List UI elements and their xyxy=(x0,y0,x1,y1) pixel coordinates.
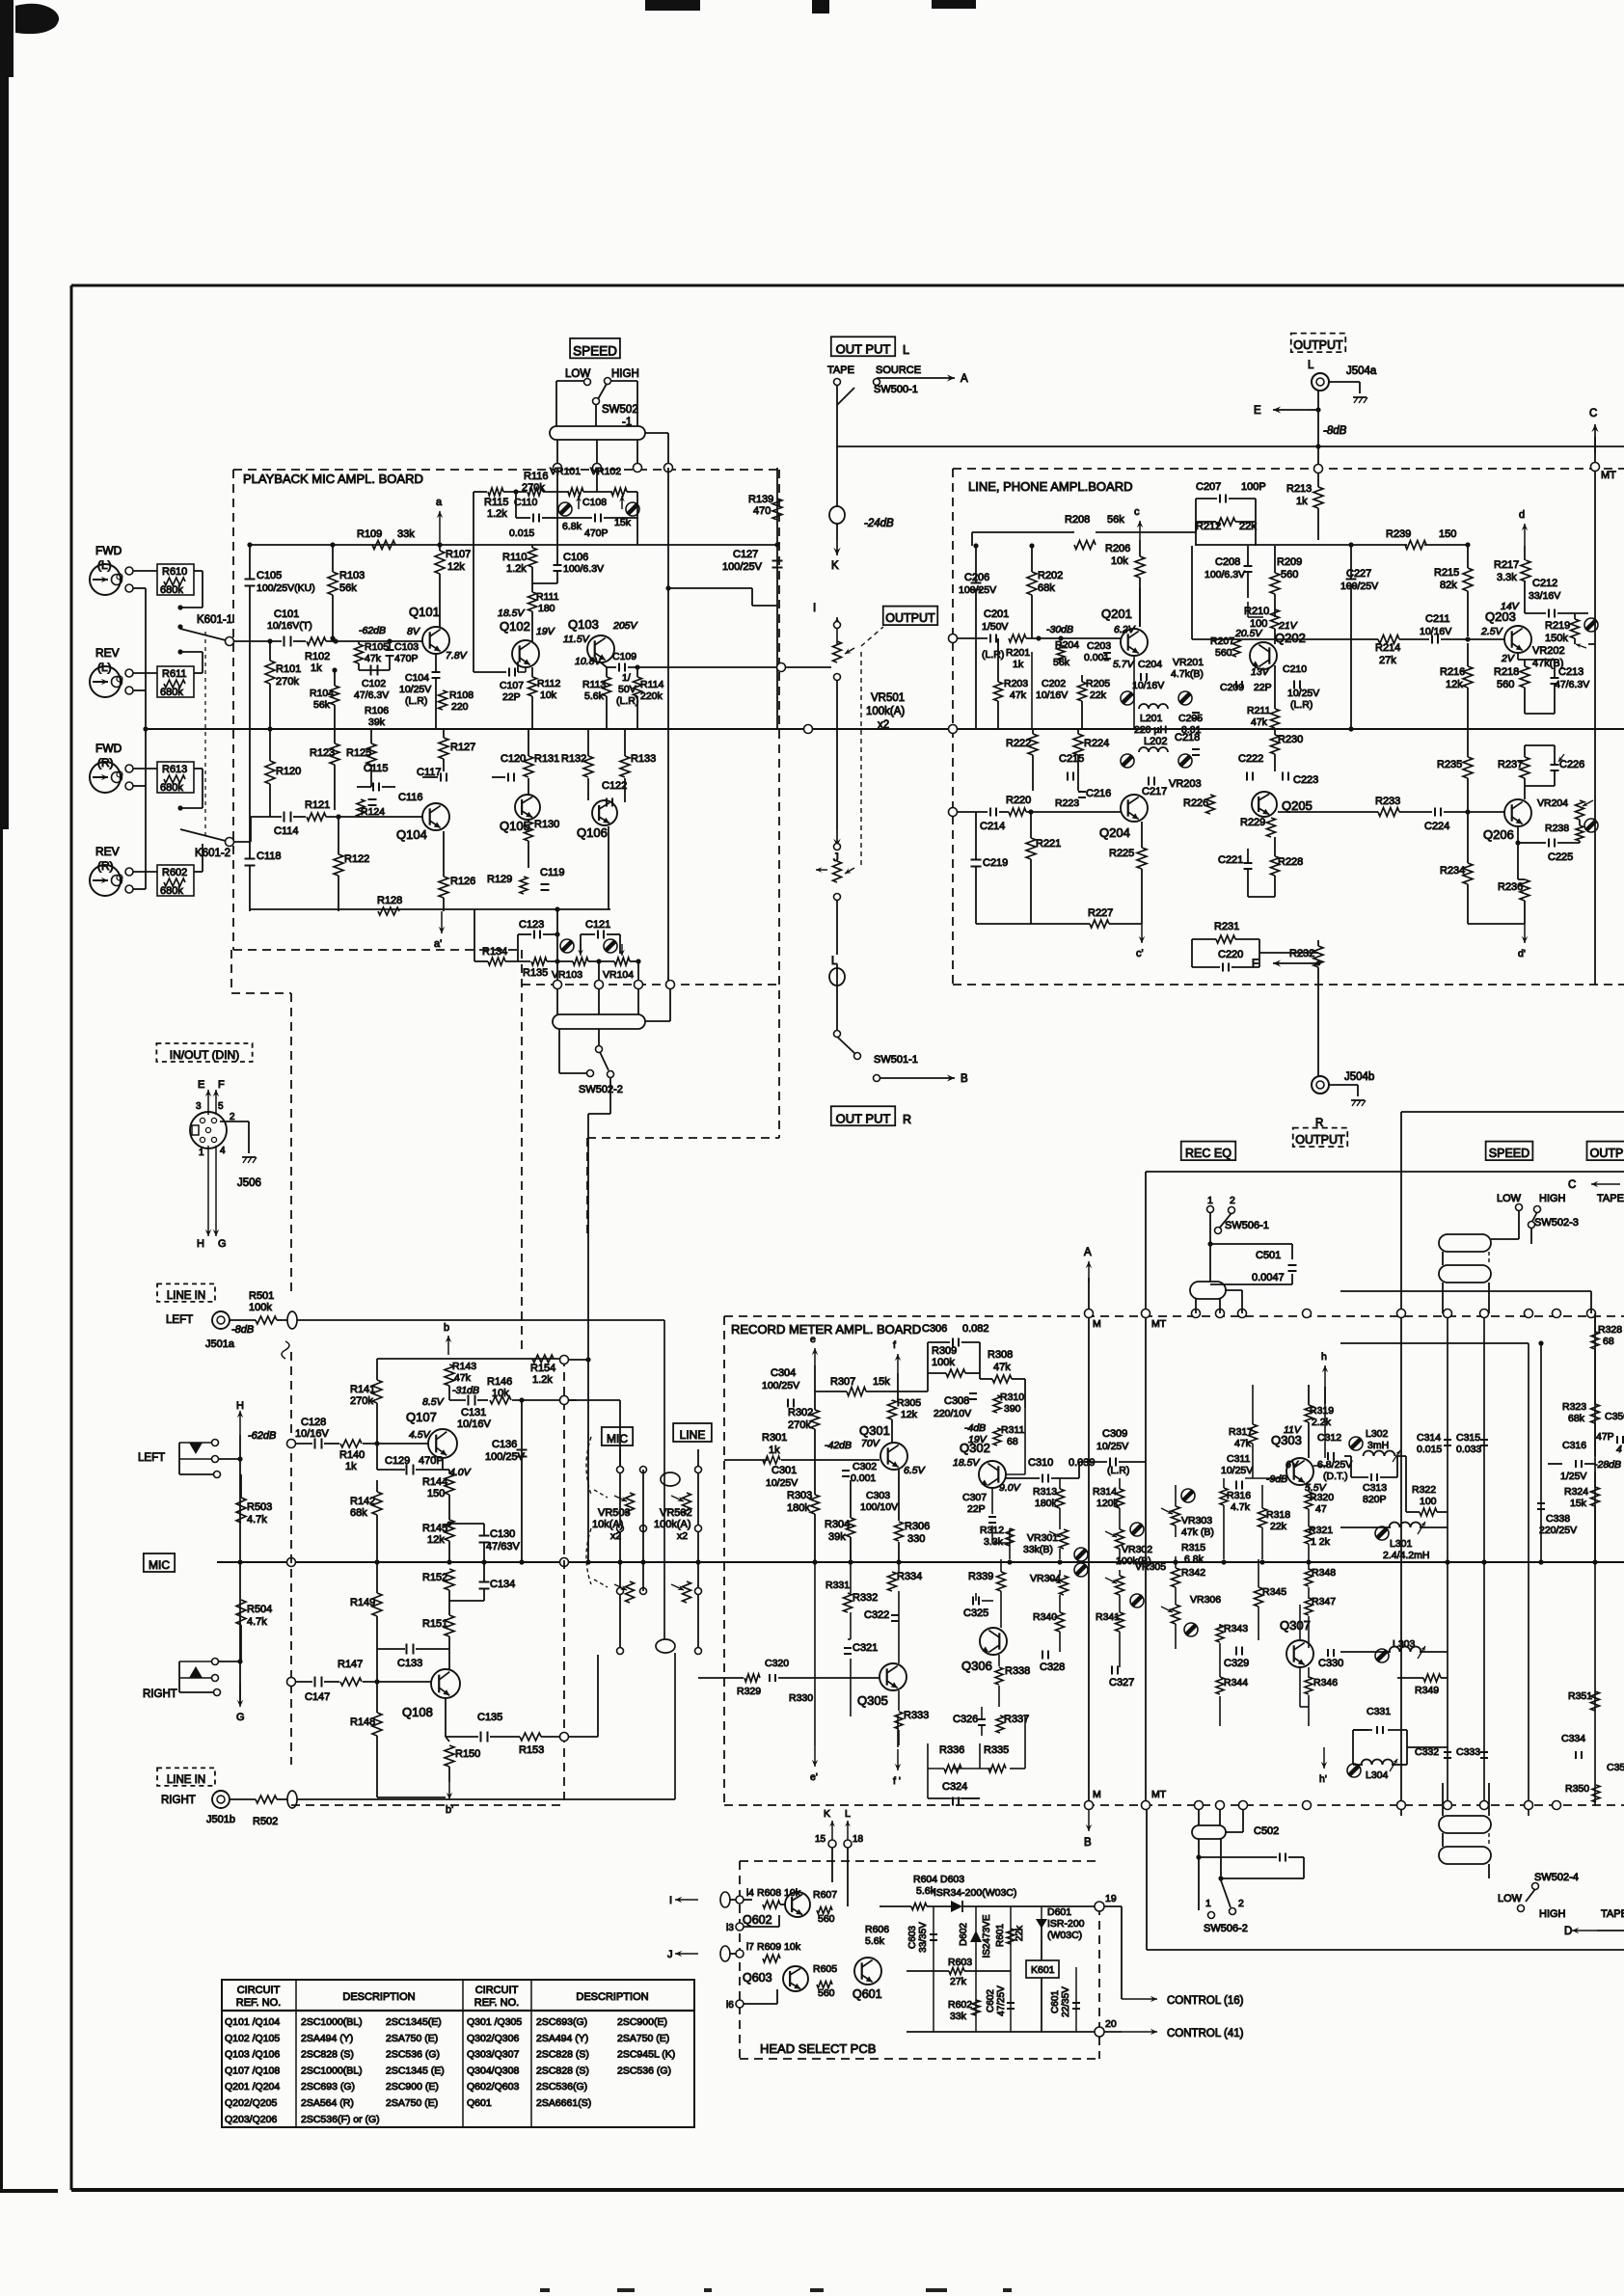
svg-text:3.3k: 3.3k xyxy=(1497,572,1517,583)
svg-text:680k: 680k xyxy=(160,584,183,596)
svg-text:IS2473VE: IS2473VE xyxy=(982,1914,992,1958)
svg-text:Q104: Q104 xyxy=(396,827,427,842)
svg-text:47/6.3V: 47/6.3V xyxy=(1555,679,1589,690)
svg-text:4.5V: 4.5V xyxy=(409,1429,431,1441)
svg-text:Q202: Q202 xyxy=(1275,631,1306,645)
svg-text:C307: C307 xyxy=(962,1492,987,1503)
svg-text:2SA564 (R): 2SA564 (R) xyxy=(301,2097,354,2109)
svg-text:0.082: 0.082 xyxy=(962,1323,989,1335)
svg-text:L: L xyxy=(1308,360,1314,371)
svg-text:2SC1345 (E): 2SC1345 (E) xyxy=(386,2065,445,2076)
svg-text:20: 20 xyxy=(1105,2018,1117,2030)
svg-text:J501b: J501b xyxy=(206,1814,235,1825)
svg-text:K601-2: K601-2 xyxy=(195,848,230,859)
svg-text:R613: R613 xyxy=(162,764,187,775)
svg-text:R309: R309 xyxy=(932,1345,957,1357)
svg-text:R239: R239 xyxy=(1386,528,1411,540)
svg-text:(L.R): (L.R) xyxy=(405,695,427,707)
svg-text:R604: R604 xyxy=(913,1874,937,1885)
svg-text:R205: R205 xyxy=(1086,678,1110,689)
svg-text:100/6.3V: 100/6.3V xyxy=(563,563,604,575)
svg-text:C104: C104 xyxy=(405,672,429,684)
svg-text:R116: R116 xyxy=(524,471,548,482)
svg-text:4: 4 xyxy=(1616,1444,1622,1455)
svg-text:47P: 47P xyxy=(1596,1431,1614,1443)
svg-text:R203: R203 xyxy=(1004,678,1028,689)
svg-text:Q301: Q301 xyxy=(859,1423,890,1438)
svg-text:R: R xyxy=(903,1113,911,1126)
svg-text:OUTP: OUTP xyxy=(1590,1147,1624,1160)
svg-text:R238: R238 xyxy=(1545,823,1569,834)
svg-text:C313: C313 xyxy=(1363,1482,1387,1494)
svg-text:1k: 1k xyxy=(345,1461,357,1472)
svg-text:R310: R310 xyxy=(1000,1391,1024,1403)
svg-text:d: d xyxy=(1519,509,1525,521)
svg-text:47k: 47k xyxy=(1234,1438,1252,1449)
svg-text:19V: 19V xyxy=(536,626,555,637)
svg-text:(W03C): (W03C) xyxy=(1047,1930,1082,1941)
svg-text:Q302: Q302 xyxy=(960,1441,990,1455)
svg-text:-8dB: -8dB xyxy=(231,1324,254,1336)
svg-text:2SC945L (K): 2SC945L (K) xyxy=(617,2049,675,2061)
svg-text:R142: R142 xyxy=(350,1496,375,1507)
svg-text:C121: C121 xyxy=(585,919,610,931)
svg-text:R147: R147 xyxy=(338,1659,363,1670)
svg-text:R133: R133 xyxy=(631,753,656,765)
svg-text:150k: 150k xyxy=(1545,633,1568,644)
svg-text:Q602/Q603: Q602/Q603 xyxy=(467,2081,519,2093)
svg-text:2SA494 (Y): 2SA494 (Y) xyxy=(536,2033,588,2044)
svg-text:18.5V: 18.5V xyxy=(953,1457,980,1469)
svg-text:56k: 56k xyxy=(313,699,331,711)
svg-text:11.5V: 11.5V xyxy=(563,634,590,645)
svg-text:C311: C311 xyxy=(1227,1453,1250,1465)
svg-text:2SA6661(S): 2SA6661(S) xyxy=(536,2097,591,2109)
svg-text:1: 1 xyxy=(199,1148,204,1158)
svg-text:680k: 680k xyxy=(160,885,183,897)
svg-text:C109: C109 xyxy=(612,651,636,662)
svg-text:C211: C211 xyxy=(1425,613,1449,625)
svg-text:VR303: VR303 xyxy=(1181,1515,1212,1526)
svg-text:SPEED: SPEED xyxy=(573,343,617,358)
svg-text:R128: R128 xyxy=(377,895,402,906)
svg-text:1: 1 xyxy=(1205,1898,1211,1909)
svg-text:VR501: VR501 xyxy=(871,692,905,704)
svg-text:VR103: VR103 xyxy=(552,969,582,981)
svg-text:2SA750 (E): 2SA750 (E) xyxy=(617,2033,669,2044)
svg-text:2: 2 xyxy=(1238,1898,1244,1909)
svg-text:C212: C212 xyxy=(1532,578,1557,589)
svg-text:820P: 820P xyxy=(1363,1494,1387,1505)
svg-text:VR201: VR201 xyxy=(1173,657,1204,668)
svg-text:2SC900(E): 2SC900(E) xyxy=(617,2016,667,2028)
svg-text:HIGH: HIGH xyxy=(1539,1908,1566,1920)
svg-text:R217: R217 xyxy=(1494,559,1519,571)
svg-text:2SC828 (S): 2SC828 (S) xyxy=(301,2049,354,2061)
svg-text:Q107: Q107 xyxy=(406,1410,437,1424)
svg-text:C324: C324 xyxy=(942,1781,967,1793)
svg-text:R109: R109 xyxy=(357,528,382,540)
svg-text:C217: C217 xyxy=(1142,786,1167,797)
svg-text:Q306: Q306 xyxy=(961,1659,992,1673)
svg-text:C338: C338 xyxy=(1546,1513,1570,1525)
svg-text:B: B xyxy=(1084,1837,1092,1849)
svg-text:R145: R145 xyxy=(422,1523,447,1534)
svg-text:Q307: Q307 xyxy=(1280,1618,1311,1633)
svg-text:R135: R135 xyxy=(523,967,548,979)
svg-text:C329: C329 xyxy=(1224,1658,1249,1669)
svg-text:J: J xyxy=(667,1949,673,1960)
svg-text:C309: C309 xyxy=(1102,1428,1127,1440)
svg-text:J501a: J501a xyxy=(205,1338,235,1350)
svg-text:C203: C203 xyxy=(1087,640,1111,652)
svg-text:MT: MT xyxy=(1151,1318,1167,1330)
svg-text:3.3k: 3.3k xyxy=(984,1536,1004,1548)
svg-text:R143: R143 xyxy=(452,1361,476,1372)
svg-text:22P: 22P xyxy=(1254,682,1272,693)
svg-text:Q305: Q305 xyxy=(857,1693,888,1708)
svg-text:1k: 1k xyxy=(1013,659,1024,670)
svg-text:10/25V: 10/25V xyxy=(1287,688,1319,699)
svg-text:R208: R208 xyxy=(1065,514,1090,526)
svg-text:R149: R149 xyxy=(350,1597,375,1608)
svg-text:x2: x2 xyxy=(677,1530,688,1542)
svg-text:R216: R216 xyxy=(1440,666,1465,678)
svg-text:C110: C110 xyxy=(514,497,537,508)
svg-text:12k: 12k xyxy=(427,1534,445,1546)
svg-text:33k: 33k xyxy=(950,2011,967,2022)
svg-text:1.2k: 1.2k xyxy=(506,563,527,575)
svg-text:R318: R318 xyxy=(1266,1509,1290,1521)
svg-text:SW502: SW502 xyxy=(602,404,638,416)
svg-text:R104: R104 xyxy=(310,688,334,699)
svg-text:C147: C147 xyxy=(305,1691,330,1703)
svg-text:SW501-1: SW501-1 xyxy=(874,1054,918,1066)
svg-text:C105: C105 xyxy=(257,570,282,581)
svg-text:560: 560 xyxy=(1215,647,1232,659)
svg-text:19: 19 xyxy=(1105,1893,1117,1904)
svg-text:h: h xyxy=(1321,1351,1327,1363)
svg-text:RECORD METER AMPL. BOARD: RECORD METER AMPL. BOARD xyxy=(731,1322,921,1337)
svg-text:J504a: J504a xyxy=(1346,365,1377,377)
svg-text:C116: C116 xyxy=(398,792,422,803)
svg-text:47k: 47k xyxy=(365,653,382,664)
svg-text:R503: R503 xyxy=(247,1501,272,1513)
svg-text:C304: C304 xyxy=(771,1367,796,1379)
svg-text:15k: 15k xyxy=(614,517,632,528)
svg-text:C220: C220 xyxy=(1218,949,1243,960)
svg-text:Q102 /Q105: Q102 /Q105 xyxy=(225,2033,280,2044)
svg-text:R123: R123 xyxy=(310,747,335,759)
svg-text:SW500-1: SW500-1 xyxy=(874,384,918,395)
svg-text:4: 4 xyxy=(220,1146,226,1156)
svg-text:6 8k: 6 8k xyxy=(1184,1553,1204,1565)
svg-text:H: H xyxy=(236,1400,244,1412)
svg-text:R214: R214 xyxy=(1375,642,1400,654)
svg-text:C209: C209 xyxy=(1220,682,1244,693)
svg-text:C135: C135 xyxy=(477,1712,502,1723)
svg-text:22P: 22P xyxy=(967,1503,986,1515)
svg-text:3: 3 xyxy=(196,1101,202,1112)
svg-text:27k: 27k xyxy=(1379,655,1396,666)
svg-text:R146: R146 xyxy=(487,1376,512,1388)
svg-text:R335: R335 xyxy=(984,1744,1009,1756)
svg-text:5: 5 xyxy=(218,1101,224,1112)
svg-text:K601: K601 xyxy=(1031,1964,1055,1976)
svg-text:VR305: VR305 xyxy=(1135,1561,1166,1573)
svg-text:68k: 68k xyxy=(1038,582,1055,594)
svg-text:Q204: Q204 xyxy=(1099,825,1130,840)
svg-text:C227: C227 xyxy=(1346,568,1371,580)
svg-text:LINE IN: LINE IN xyxy=(167,1774,205,1786)
svg-text:R601: R601 xyxy=(995,1924,1006,1947)
svg-text:R306: R306 xyxy=(905,1521,930,1532)
svg-text:6.8k: 6.8k xyxy=(562,521,582,532)
svg-text:33k: 33k xyxy=(397,528,415,540)
svg-text:HIGH: HIGH xyxy=(1539,1193,1566,1204)
svg-text:C224: C224 xyxy=(1424,821,1449,832)
svg-text:2SC693 (G): 2SC693 (G) xyxy=(301,2081,355,2093)
svg-text:C226: C226 xyxy=(1559,759,1584,770)
svg-text:R211: R211 xyxy=(1247,705,1270,716)
svg-text:C103: C103 xyxy=(394,641,419,653)
svg-text:1k: 1k xyxy=(311,662,322,674)
svg-text:R150: R150 xyxy=(455,1748,480,1760)
svg-text:SW506-1: SW506-1 xyxy=(1225,1220,1269,1231)
svg-text:MT: MT xyxy=(1151,1789,1167,1800)
svg-text:180: 180 xyxy=(538,603,555,614)
svg-text:R232: R232 xyxy=(1289,948,1314,959)
svg-text:2.4/4.2mH: 2.4/4.2mH xyxy=(1383,1550,1429,1561)
svg-text:220 µH: 220 µH xyxy=(1134,724,1167,736)
svg-text:R605: R605 xyxy=(813,1963,837,1975)
svg-text:R107: R107 xyxy=(446,549,471,560)
svg-text:Q201: Q201 xyxy=(1101,607,1132,621)
svg-text:100k: 100k xyxy=(932,1357,955,1368)
svg-text:e': e' xyxy=(810,1771,818,1783)
svg-text:VR101: VR101 xyxy=(550,466,581,477)
svg-text:8.5V: 8.5V xyxy=(422,1396,445,1408)
svg-text:VR502: VR502 xyxy=(660,1507,692,1519)
svg-text:R502: R502 xyxy=(253,1816,278,1827)
svg-text:C303: C303 xyxy=(866,1490,890,1501)
svg-text:L: L xyxy=(845,1808,851,1820)
svg-text:Q205: Q205 xyxy=(1282,798,1313,813)
svg-text:180k: 180k xyxy=(787,1502,810,1514)
svg-text:C119: C119 xyxy=(540,867,564,878)
svg-text:560: 560 xyxy=(1281,569,1298,581)
svg-text:C204: C204 xyxy=(1138,659,1162,670)
svg-text:Q206: Q206 xyxy=(1483,827,1514,842)
svg-text:R313: R313 xyxy=(1033,1486,1057,1498)
svg-text:-24dB: -24dB xyxy=(864,518,894,529)
svg-text:2SC536 (G): 2SC536 (G) xyxy=(617,2065,671,2076)
svg-text:R347: R347 xyxy=(1312,1596,1336,1607)
svg-text:R105: R105 xyxy=(365,641,389,653)
svg-text:R121: R121 xyxy=(305,799,330,811)
svg-text:-4dB: -4dB xyxy=(964,1422,986,1434)
svg-text:-31dB: -31dB xyxy=(452,1385,479,1396)
svg-text:LOW: LOW xyxy=(1497,1193,1522,1204)
svg-text:390: 390 xyxy=(1004,1403,1021,1415)
svg-text:TAPE: TAPE xyxy=(827,365,854,376)
svg-text:1k: 1k xyxy=(1296,496,1308,507)
svg-text:R311: R311 xyxy=(1001,1424,1024,1436)
svg-text:R131: R131 xyxy=(534,753,559,765)
svg-text:C221: C221 xyxy=(1218,854,1243,866)
svg-text:OUT PUT: OUT PUT xyxy=(836,1111,891,1125)
svg-text:R224: R224 xyxy=(1084,738,1109,749)
svg-text:12k: 12k xyxy=(1446,679,1463,690)
svg-text:C316: C316 xyxy=(1562,1440,1586,1451)
svg-text:Q203/Q206: Q203/Q206 xyxy=(225,2114,277,2125)
svg-text:10.8V: 10.8V xyxy=(575,656,602,667)
svg-text:R114: R114 xyxy=(640,679,663,690)
svg-text:DESCRIPTION: DESCRIPTION xyxy=(576,1991,648,2003)
svg-text:22k: 22k xyxy=(1090,689,1107,701)
svg-text:OUTPUT: OUTPUT xyxy=(1295,1133,1345,1147)
svg-text:470: 470 xyxy=(753,505,771,517)
svg-text:C127: C127 xyxy=(733,549,758,560)
svg-text:270k: 270k xyxy=(350,1395,373,1407)
svg-text:b: b xyxy=(444,1322,449,1334)
svg-text:REV: REV xyxy=(95,845,120,858)
svg-text:i6: i6 xyxy=(726,2000,734,2011)
svg-text:OUT PUT: OUT PUT xyxy=(836,341,891,356)
svg-text:R336: R336 xyxy=(939,1744,964,1756)
svg-text:C215: C215 xyxy=(1059,753,1084,765)
svg-text:SOURCE: SOURCE xyxy=(876,365,921,376)
svg-text:150: 150 xyxy=(427,1488,445,1499)
svg-text:Q102: Q102 xyxy=(500,619,530,634)
svg-text:1: 1 xyxy=(1207,1195,1213,1206)
svg-text:2SC536(G): 2SC536(G) xyxy=(536,2081,587,2093)
svg-text:C207: C207 xyxy=(1196,481,1221,493)
svg-text:FWD: FWD xyxy=(95,544,122,557)
svg-text:R332: R332 xyxy=(853,1592,878,1604)
svg-text:R120: R120 xyxy=(276,766,301,777)
svg-text:R220: R220 xyxy=(1006,795,1031,806)
svg-text:R106: R106 xyxy=(365,705,389,716)
svg-text:10/25V: 10/25V xyxy=(1096,1441,1128,1452)
svg-text:10k: 10k xyxy=(1111,555,1128,567)
svg-text:R222: R222 xyxy=(1006,738,1031,749)
svg-text:56k: 56k xyxy=(339,582,357,594)
svg-text:C106: C106 xyxy=(563,552,588,563)
svg-text:220: 220 xyxy=(451,701,469,713)
svg-text:C310: C310 xyxy=(1028,1457,1053,1469)
svg-text:10k(A): 10k(A) xyxy=(592,1519,623,1530)
svg-text:a: a xyxy=(436,497,443,508)
svg-text:R144: R144 xyxy=(422,1476,447,1488)
svg-text:27k: 27k xyxy=(950,1976,967,1987)
svg-text:R328: R328 xyxy=(1598,1324,1622,1336)
svg-text:R154: R154 xyxy=(530,1363,555,1374)
svg-text:CIRCUIT: CIRCUIT xyxy=(475,1985,519,1996)
svg-text:Q106: Q106 xyxy=(577,825,608,840)
svg-text:R607: R607 xyxy=(813,1889,837,1901)
svg-text:470P: 470P xyxy=(584,527,609,539)
svg-text:x2: x2 xyxy=(610,1530,621,1542)
svg-text:1/: 1/ xyxy=(622,672,631,684)
svg-text:Q304/Q308: Q304/Q308 xyxy=(467,2065,519,2076)
svg-text:C308: C308 xyxy=(944,1395,969,1407)
svg-text:C101: C101 xyxy=(274,608,299,620)
svg-text:MIC: MIC xyxy=(149,1558,170,1572)
svg-text:C306: C306 xyxy=(922,1323,947,1335)
svg-text:CONTROL (41): CONTROL (41) xyxy=(1167,2028,1244,2039)
svg-text:IN/OUT (DIN): IN/OUT (DIN) xyxy=(170,1048,239,1062)
svg-text:R108: R108 xyxy=(449,689,474,701)
svg-text:H: H xyxy=(197,1238,204,1250)
svg-text:Q302/Q306: Q302/Q306 xyxy=(467,2033,519,2044)
svg-text:VR203: VR203 xyxy=(1169,778,1202,790)
svg-text:R140: R140 xyxy=(339,1449,365,1461)
svg-text:R349: R349 xyxy=(1415,1685,1439,1696)
svg-text:10/16V: 10/16V xyxy=(295,1428,330,1440)
svg-text:R223: R223 xyxy=(1055,797,1079,809)
svg-text:C118: C118 xyxy=(257,851,281,862)
svg-text:10/25V: 10/25V xyxy=(766,1477,798,1489)
svg-text:C133: C133 xyxy=(397,1658,422,1669)
svg-text:C301: C301 xyxy=(771,1465,797,1476)
svg-text:33/35V: 33/35V xyxy=(918,1922,929,1953)
svg-text:R122: R122 xyxy=(344,853,369,865)
svg-text:47k: 47k xyxy=(993,1362,1011,1373)
svg-text:C201: C201 xyxy=(984,608,1009,620)
svg-text:SW502-3: SW502-3 xyxy=(1534,1217,1579,1229)
svg-text:470P: 470P xyxy=(419,1455,444,1467)
svg-text:R316: R316 xyxy=(1227,1490,1251,1501)
svg-text:2V: 2V xyxy=(1501,653,1515,664)
svg-text:13V: 13V xyxy=(1251,666,1270,678)
svg-text:VR306: VR306 xyxy=(1190,1594,1221,1606)
svg-text:100/25V: 100/25V xyxy=(762,1380,799,1391)
svg-text:C302: C302 xyxy=(853,1461,877,1472)
svg-text:33k(B): 33k(B) xyxy=(1023,1544,1053,1555)
svg-text:R233: R233 xyxy=(1375,796,1400,807)
svg-text:MIC: MIC xyxy=(607,1432,628,1445)
svg-text:LEFT: LEFT xyxy=(166,1314,193,1326)
svg-text:C122: C122 xyxy=(602,780,627,792)
svg-text:(L.R): (L.R) xyxy=(1107,1465,1129,1476)
svg-text:68: 68 xyxy=(1007,1436,1018,1447)
svg-text:18: 18 xyxy=(853,1834,864,1845)
svg-text:-62dB: -62dB xyxy=(359,625,386,636)
svg-text:C502: C502 xyxy=(1254,1825,1279,1837)
svg-text:100/25V: 100/25V xyxy=(722,561,763,573)
svg-text:J506: J506 xyxy=(237,1177,261,1189)
svg-text:I: I xyxy=(813,603,816,614)
svg-text:270k: 270k xyxy=(276,676,299,688)
svg-text:R501: R501 xyxy=(249,1290,274,1302)
svg-text:SW502-2: SW502-2 xyxy=(579,1084,623,1095)
svg-text:MT: MT xyxy=(1601,470,1616,481)
svg-text:C501: C501 xyxy=(1256,1250,1281,1261)
svg-text:Q101 /Q104: Q101 /Q104 xyxy=(225,2016,280,2028)
svg-text:C107: C107 xyxy=(500,680,524,691)
svg-text:R314: R314 xyxy=(1093,1486,1117,1498)
svg-text:70V: 70V xyxy=(861,1438,880,1449)
svg-text:R345: R345 xyxy=(1262,1586,1286,1598)
svg-text:6.5V: 6.5V xyxy=(904,1465,926,1476)
svg-text:-62dB: -62dB xyxy=(248,1430,276,1442)
svg-text:R348: R348 xyxy=(1312,1567,1336,1579)
svg-text:f: f xyxy=(893,1339,896,1351)
svg-text:C222: C222 xyxy=(1238,753,1263,765)
svg-text:R334: R334 xyxy=(897,1571,922,1582)
svg-text:2.5V: 2.5V xyxy=(1480,626,1503,637)
